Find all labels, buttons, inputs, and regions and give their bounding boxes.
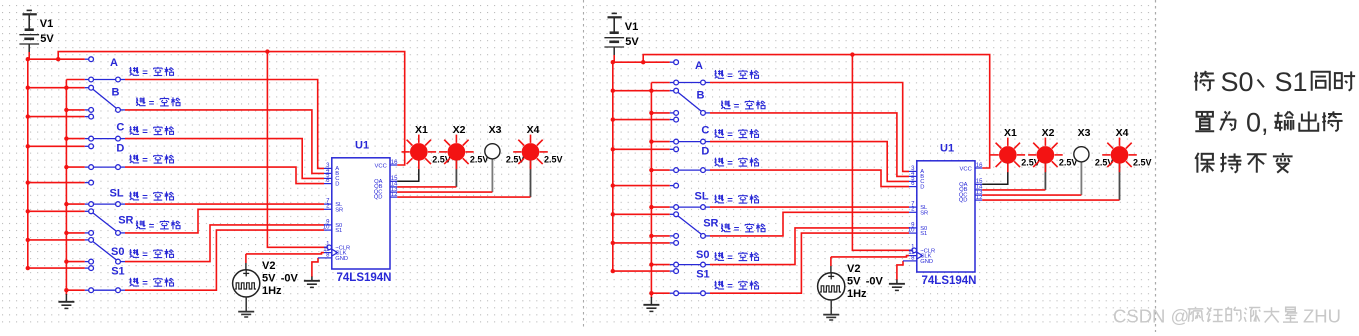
circuit 1: junction inner bus S0 [64, 259, 68, 263]
circuit 1: switch S0 key label (Key = Space) [130, 249, 139, 257]
svg-text:S0: S0 [696, 249, 709, 261]
circuit 1: wire switch C to U1 pin [125, 139, 324, 179]
circuit 1: wire top power rail to U1 VCC pin 16 [58, 52, 405, 165]
svg-text:A: A [695, 60, 703, 72]
circuit 1: indicator lamp X4 [540, 151, 548, 153]
circuit 2: wire VCC rail to U1 ~CLR pin 1 [852, 55, 911, 251]
svg-text:C: C [116, 121, 124, 133]
svg-text:B: B [112, 86, 120, 98]
circuit 2: junction inner bus D [649, 168, 653, 172]
circuit 1: wire outer bus to switch B upper throw [28, 87, 85, 89]
svg-text:16: 16 [976, 163, 983, 169]
svg-text:-0V: -0V [281, 273, 299, 285]
circuit 2: wire U1 to lamp X1 [982, 163, 1008, 184]
circuit 1: junction outer bus S1 [26, 266, 30, 270]
circuit 1: switch SR key label (Key = Space) [136, 221, 145, 229]
circuit 2: wire switch S1 to U1 pin 10 [710, 233, 909, 293]
circuit 2: clock source V2 [830, 257, 832, 266]
svg-text:X2: X2 [1042, 127, 1055, 139]
circuit 1: wire outer bus to switch SL upper throw [28, 182, 85, 184]
circuit 2: junction outer bus S0 [611, 241, 615, 245]
svg-text:S0: S0 [111, 246, 124, 258]
circuit 1: op chip U1 74LS194N body [332, 158, 390, 269]
circuit 1: junction battery bus [26, 57, 30, 61]
circuit 1: DC source V1 [27, 9, 32, 11]
circuit 2: switch S1 key label (Key = Space) [715, 281, 724, 289]
circuit 2: junction outer bus SL [611, 183, 615, 187]
svg-text:CSDN @: CSDN @ [1113, 306, 1189, 327]
circuit 2: inner bus [651, 82, 669, 84]
circuit 2: junction outer bus B [611, 89, 615, 93]
circuit 1: switch A [85, 58, 89, 60]
svg-text:U1: U1 [355, 140, 369, 152]
caption line 3: "bao chi bu bian" [1195, 153, 1214, 173]
circuit 1: left outer bus [27, 59, 29, 268]
circuit 1: wire U1 to lamp X4 [530, 160, 532, 198]
circuit 2: switch SR [670, 213, 674, 215]
circuit 2: wire inner bus to switch S0 lower throw [651, 264, 669, 266]
circuit 2: switch A [670, 61, 674, 63]
circuit 1: switch C [85, 116, 89, 118]
circuit 2: op chip U1 74LS194N body [917, 161, 975, 272]
svg-text:V2: V2 [847, 263, 860, 275]
circuit 2: ground at U1 pin 8 [896, 280, 898, 284]
circuit 1: wire switch S1 to U1 pin 10 [125, 230, 324, 290]
circuit 1: wire U1 to lamp X1 [397, 160, 419, 181]
circuit 2: switch D [670, 148, 674, 150]
circuit 1: wire inner bus to switch SR lower throw [66, 232, 84, 234]
svg-text:QD: QD [374, 194, 383, 200]
circuit 2: wire V1 to bus [613, 55, 615, 62]
circuit 2: switch S0 key label (Key = Space) [715, 252, 724, 260]
circuit 1: wire inner bus to switch SL lower throw [66, 203, 84, 205]
circuit 1: wire inner bus to switch S0 lower throw [66, 261, 84, 263]
svg-text:SR: SR [920, 210, 928, 216]
circuit 1: junction outer bus D [26, 144, 30, 148]
circuit 2: switch B key label (Key = Space) [721, 101, 730, 109]
circuit 1: wire switch B to U1 pin [125, 110, 324, 173]
circuit 2: junction VCC/CLR tee [850, 52, 854, 56]
circuit 1: clock source V2 [245, 254, 247, 263]
circuit 1: switch B [85, 87, 89, 89]
svg-text:D: D [920, 184, 924, 190]
svg-text:QD: QD [959, 197, 968, 203]
circuit 2: wire outer bus to switch D upper throw [613, 148, 670, 150]
circuit 1: junction VCC/CLR tee [265, 49, 269, 53]
svg-text:X1: X1 [415, 124, 428, 136]
svg-text:=: = [734, 101, 740, 112]
circuit 2: wire switch C to U1 pin [710, 142, 909, 182]
circuit 1: switch S0 [85, 239, 89, 241]
svg-text:-0V: -0V [866, 276, 884, 288]
circuit 1: switch S1 key label (Key = Space) [130, 278, 139, 286]
svg-text:2.5V: 2.5V [506, 154, 525, 164]
circuit 1: indicator lamp X1 [428, 151, 436, 153]
circuit 2: junction inner bus SL [649, 205, 653, 209]
circuit 1: wire inner bus to switch C lower throw [66, 138, 84, 140]
svg-text:10: 10 [908, 228, 915, 234]
circuit 1: junction top rail tee [56, 57, 60, 61]
circuit 1: junction outer bus SL [26, 180, 30, 184]
circuit 2: switch SL [670, 185, 674, 187]
svg-text:5V: 5V [40, 33, 54, 45]
circuit 2: indicator lamp X3 [1074, 147, 1089, 162]
svg-text:S1: S1 [696, 269, 709, 281]
circuit 2: indicator lamp X2 [1054, 154, 1062, 156]
circuit 1: junction outer bus C [26, 114, 30, 118]
circuit 1: wire inner bus to switch S1 lower throw [66, 289, 84, 291]
circuit 2: wire bus row to switch A upper throw [613, 61, 670, 63]
circuit 2: U1 CLK edge triangle [917, 252, 923, 259]
svg-text:0,: 0, [1246, 108, 1269, 138]
svg-text:=: = [727, 253, 733, 264]
circuit 1: switch D key label (Key = Space) [130, 155, 139, 163]
circuit 1: switch A key label (Key = Space) [130, 67, 139, 75]
circuit 1: wire V2 to U1 CLK pin 11 [246, 253, 324, 254]
svg-text:D: D [335, 181, 339, 187]
circuit 2: left outer bus [612, 62, 614, 271]
svg-text:GND: GND [335, 256, 348, 262]
svg-text:=: = [734, 224, 740, 235]
circuit 2: junction inner bus S0 [649, 262, 653, 266]
circuit 2: U1 pin 1 inversion bubble [912, 248, 917, 253]
svg-text:=: = [149, 221, 155, 232]
circuit 2: wire outer bus to switch SR upper throw [613, 213, 670, 215]
circuit 2: switch S1 [670, 270, 674, 272]
circuit 1: wire VCC rail to U1 ~CLR pin 1 [267, 52, 326, 248]
svg-text:1Hz: 1Hz [262, 285, 282, 297]
circuit 2: switch C [670, 119, 674, 121]
svg-text:GND: GND [920, 259, 933, 265]
circuit 1: U1 pin stubs [324, 167, 332, 169]
svg-text:S1: S1 [920, 231, 927, 237]
circuit 2: switch C key label (Key = Space) [715, 129, 724, 137]
circuit 2: wire U1 to lamp X4 [1119, 163, 1121, 201]
svg-text:SR: SR [703, 218, 718, 230]
circuit 1: junction outer bus S0 [26, 238, 30, 242]
svg-text:X2: X2 [453, 124, 466, 136]
circuit 2: ground at inner bus [650, 297, 652, 305]
circuit 2: wire outer bus to switch C upper throw [613, 119, 670, 121]
svg-text:VCC: VCC [375, 163, 387, 169]
svg-text:2.5V: 2.5V [544, 154, 563, 164]
circuit 2: switch SL key label (Key = Space) [715, 195, 724, 203]
circuit 1: switch C key label (Key = Space) [130, 126, 139, 134]
circuit 2: junction top rail tee [641, 60, 645, 64]
circuit 2: switch SR key label (Key = Space) [721, 224, 730, 232]
circuit 2: wire top power rail to U1 VCC pin 16 [643, 55, 990, 168]
circuit 1: junction outer bus B [26, 86, 30, 90]
svg-text:=: = [142, 250, 148, 261]
circuit 1: junction inner bus top [64, 86, 68, 90]
circuit 2: wire outer bus to switch S0 upper throw [613, 242, 670, 244]
circuit 1: wire inner bus to switch D lower throw [66, 166, 84, 168]
circuit 1: junction inner bus D [64, 165, 68, 169]
svg-text:S0: S0 [1221, 67, 1254, 97]
circuit 1: ground at inner bus [65, 294, 67, 302]
circuit 1: inner bus [66, 79, 84, 81]
svg-text:5V: 5V [625, 36, 639, 48]
circuit 2: wire switch B to U1 pin [710, 113, 909, 176]
svg-text:V1: V1 [625, 21, 638, 33]
svg-text:SR: SR [118, 215, 133, 227]
circuit 1: wire switch A to U1 pin [125, 80, 324, 169]
circuit 2: wire switch D to U1 pin [710, 170, 909, 187]
circuit 1: indicator lamp X2 [465, 151, 473, 153]
circuit 1: wire outer bus to switch SR upper throw [28, 210, 85, 212]
circuit 2: wire outer bus to switch SL upper throw [613, 185, 670, 187]
circuit 1: U1 CLK edge triangle [332, 249, 338, 256]
svg-text:X3: X3 [1078, 127, 1091, 139]
circuit 2: indicator lamp X4 [1129, 154, 1137, 156]
circuit 1: wire outer bus to switch C upper throw [28, 116, 85, 118]
circuit 2: junction inner bus S1 [649, 291, 653, 295]
circuit 1: U1 pin 1 inversion bubble [327, 245, 332, 250]
circuit 1: junction inner bus SL [64, 202, 68, 206]
circuit 2: junction battery bus [611, 60, 615, 64]
circuit 1: junction inner bus B [64, 108, 68, 112]
svg-text:=: = [142, 127, 148, 138]
svg-text:A: A [110, 57, 118, 69]
svg-text:X3: X3 [489, 124, 502, 136]
circuit 1: wire U1 GND pin 8 to ground [312, 258, 318, 277]
circuit 2: wire V2 to U1 CLK pin 11 [831, 256, 909, 257]
svg-text:S1: S1 [111, 266, 124, 278]
circuit 2: wire inner bus to switch C lower throw [651, 141, 669, 143]
svg-text:16: 16 [391, 160, 398, 166]
circuit 2: switch S0 [670, 242, 674, 244]
svg-text:=: = [142, 155, 148, 166]
circuit 2: wire inner bus to switch D lower throw [651, 169, 669, 171]
circuit 2: wire switch A to U1 pin [710, 83, 909, 172]
svg-text:SL: SL [110, 187, 124, 199]
circuit 1: switch SL key label (Key = Space) [130, 192, 139, 200]
svg-text:X4: X4 [1116, 127, 1129, 139]
circuit 1: switch SL [85, 182, 89, 184]
circuit 1: switch S1 [85, 267, 89, 269]
circuit 1: wire switch SL to U1 pin 7 [125, 203, 324, 205]
circuit 2: junction outer bus D [611, 147, 615, 151]
circuit 2: junction inner bus B [649, 111, 653, 115]
circuit 2: wire switch SR to U1 pin 2 [710, 212, 909, 236]
svg-text:C: C [701, 124, 709, 136]
circuit 1: switch D [85, 145, 89, 147]
circuit 1: wire V1 to bus [28, 52, 30, 59]
svg-text:2.5V: 2.5V [1133, 157, 1152, 167]
svg-text:S1: S1 [335, 228, 342, 234]
svg-text:V1: V1 [40, 18, 53, 30]
sheet dashed border circuit 2 left [583, 0, 585, 330]
circuit 1: wire switch SR to U1 pin 2 [125, 209, 324, 233]
circuit 1: switch B key label (Key = Space) [136, 98, 145, 106]
circuit 1: wire outer bus to switch S1 upper throw [28, 267, 85, 269]
circuit 2: wire U1 to lamp X3 [1080, 163, 1082, 196]
circuit 1: wire bus row to switch A upper throw [28, 58, 85, 60]
svg-text:X1: X1 [1004, 127, 1017, 139]
circuit 1: junction inner bus SR [64, 231, 68, 235]
svg-text:=: = [149, 98, 155, 109]
svg-text:V2: V2 [262, 260, 275, 272]
circuit 1: indicator lamp X3 [485, 144, 500, 159]
circuit 2: switch B [670, 90, 674, 92]
svg-text:1Hz: 1Hz [847, 288, 867, 300]
circuit 1: junction outer bus SR [26, 209, 30, 213]
circuit 1: wire switch S0 to U1 pin 9 [125, 225, 324, 262]
circuit 2: switch D key label (Key = Space) [715, 158, 724, 166]
svg-text:ZHU: ZHU [1303, 306, 1341, 327]
circuit 1: ground at U1 pin 8 [311, 277, 313, 281]
svg-text:12: 12 [976, 195, 983, 201]
circuit 2: junction inner bus top [649, 89, 653, 93]
svg-text:D: D [116, 143, 124, 155]
circuit 2: wire switch S0 to U1 pin 9 [710, 228, 909, 265]
svg-text:74LS194N: 74LS194N [922, 275, 977, 287]
circuit 2: wire U1 to lamp X2 [1044, 163, 1046, 190]
svg-text:12: 12 [391, 192, 398, 198]
circuit 1: wire outer bus to switch S0 upper throw [28, 239, 85, 241]
circuit 2: indicator lamp X1 [1017, 154, 1025, 156]
svg-text:=: = [727, 195, 733, 206]
circuit 2: wire outer bus to switch B upper throw [613, 90, 670, 92]
circuit 2: wire outer bus to switch S1 upper throw [613, 270, 670, 272]
circuit 1: wire outer bus to switch D upper throw [28, 145, 85, 147]
circuit 2: wire switch SL to U1 pin 7 [710, 206, 909, 208]
circuit 1: wire switch D to U1 pin [125, 167, 324, 184]
circuit 2: wire inner bus to switch S1 lower throw [651, 292, 669, 294]
circuit 1: wire inner bus to switch B lower throw [66, 109, 84, 111]
circuit 2: wire inner bus to switch SL lower throw [651, 206, 669, 208]
svg-text:=: = [727, 281, 733, 292]
circuit 1: ground below V2 [245, 297, 247, 311]
svg-text:X4: X4 [527, 124, 540, 136]
svg-text:=: = [727, 158, 733, 169]
svg-text:5V: 5V [847, 276, 861, 288]
circuit 2: ground below V2 [830, 300, 832, 314]
circuit 2: junction outer bus C [611, 117, 615, 121]
circuit 2: switch A key label (Key = Space) [715, 70, 724, 78]
svg-text:SR: SR [335, 207, 343, 213]
circuit 1: switch SR [85, 210, 89, 212]
circuit 1: wire U1 to lamp X2 [455, 160, 457, 187]
svg-text:D: D [701, 146, 709, 158]
svg-text:2.5V: 2.5V [1095, 157, 1114, 167]
svg-text:74LS194N: 74LS194N [337, 272, 392, 284]
sheet dashed border [1155, 0, 1157, 332]
svg-text:10: 10 [323, 225, 330, 231]
circuit 2: junction outer bus S1 [611, 269, 615, 273]
svg-text:5V: 5V [262, 273, 276, 285]
svg-text:=: = [727, 130, 733, 141]
svg-text:=: = [142, 192, 148, 203]
circuit 2: wire U1 GND pin 8 to ground [897, 261, 903, 280]
svg-text:=: = [727, 71, 733, 82]
circuit 2: junction inner bus SR [649, 234, 653, 238]
circuit 2: wire inner bus to switch B lower throw [651, 112, 669, 114]
circuit 1: wire U1 to lamp X3 [491, 160, 493, 193]
svg-text:B: B [697, 89, 705, 101]
circuit 2: junction outer bus SR [611, 212, 615, 216]
svg-text:SL: SL [695, 190, 709, 202]
circuit 1: junction inner bus S1 [64, 288, 68, 292]
svg-text:VCC: VCC [960, 166, 972, 172]
circuit 2: U1 pin stubs [909, 170, 917, 172]
circuit 1: junction inner bus C [64, 136, 68, 140]
circuit 2: wire inner bus to switch SR lower throw [651, 235, 669, 237]
circuit 2: DC source V1 [612, 12, 617, 14]
caption line 1: "jiang S0, S1 tong shi" [1194, 71, 1214, 91]
svg-text:S1: S1 [1275, 67, 1308, 97]
circuit 2: junction inner bus C [649, 139, 653, 143]
svg-text:U1: U1 [940, 143, 954, 155]
svg-text:=: = [142, 278, 148, 289]
svg-text:=: = [142, 68, 148, 79]
caption line 2: "zhi wei 0, shu chu jiang" [1195, 112, 1214, 131]
